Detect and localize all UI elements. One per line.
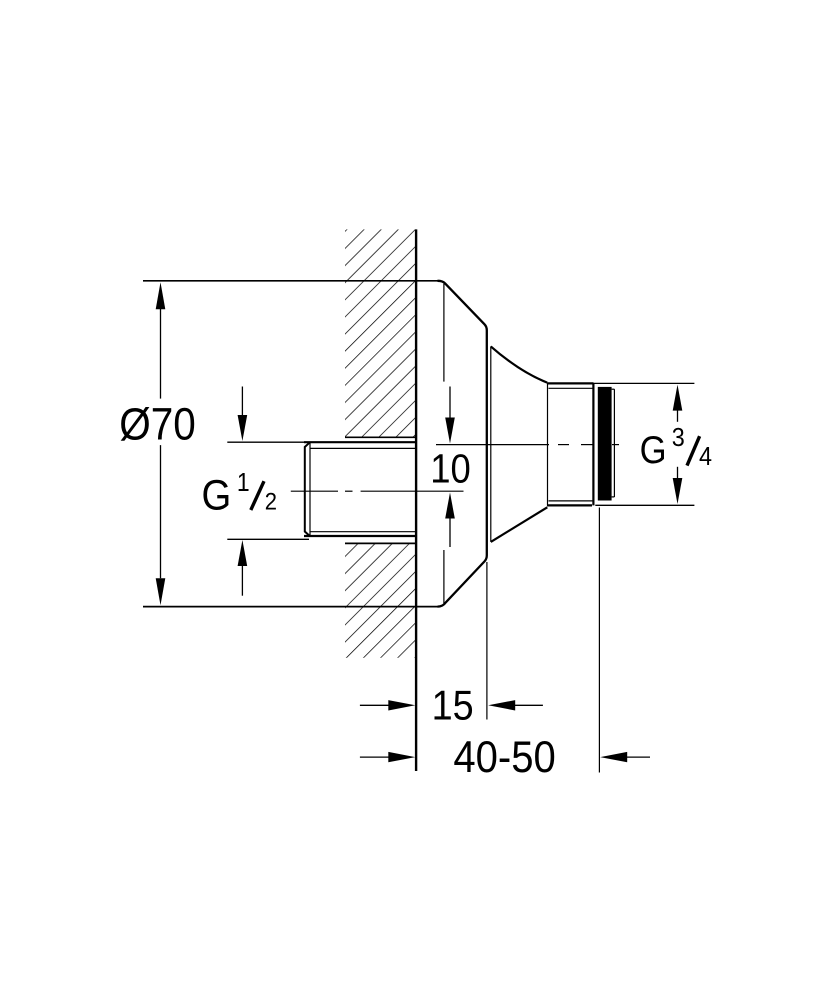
- svg-text:40-50: 40-50: [453, 732, 555, 781]
- svg-text:4: 4: [699, 443, 712, 471]
- svg-text:15: 15: [432, 683, 474, 729]
- svg-text:10: 10: [430, 447, 471, 492]
- svg-text:G: G: [640, 429, 667, 472]
- svg-text:3: 3: [672, 424, 685, 452]
- svg-text:G: G: [202, 471, 232, 519]
- svg-text:Ø70: Ø70: [119, 400, 196, 450]
- svg-text:2: 2: [265, 487, 277, 514]
- svg-text:1: 1: [237, 469, 250, 497]
